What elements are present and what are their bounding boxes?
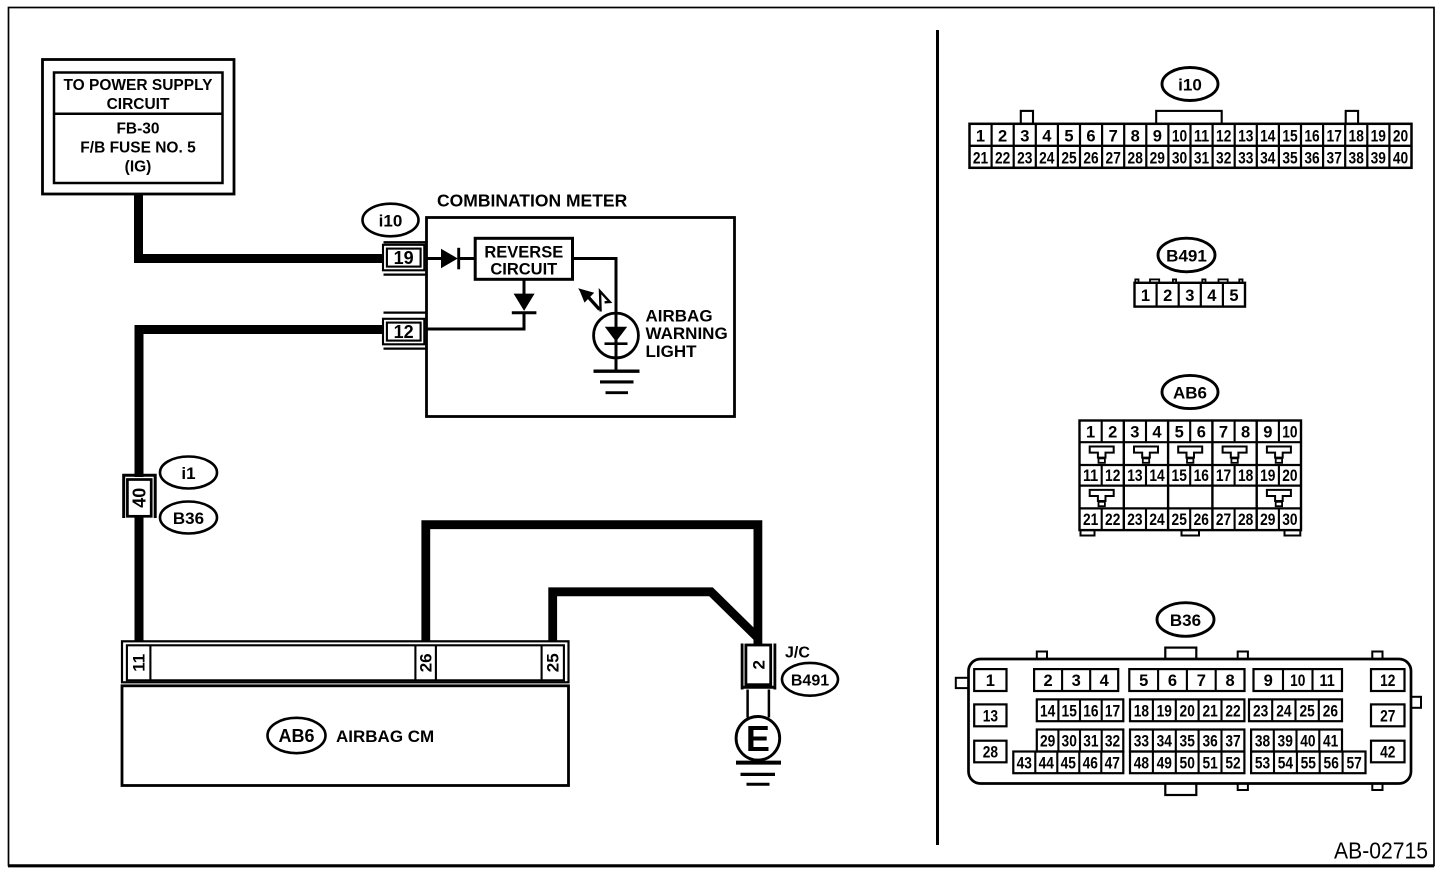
airbag CM connector strip (pins 11, 26, 25) xyxy=(122,641,569,682)
svg-text:16: 16 xyxy=(1083,703,1098,721)
svg-text:31: 31 xyxy=(1194,149,1209,167)
diode (series, anode left) xyxy=(441,248,459,269)
svg-text:8: 8 xyxy=(1226,672,1235,690)
i10 pin numbers 1-40 xyxy=(973,127,1408,167)
svg-text:21: 21 xyxy=(1083,511,1098,529)
wire airbag CM pin 25 up, right, diagonal to J/C wire xyxy=(553,592,758,642)
B36 pins 5-8 xyxy=(1129,669,1244,691)
svg-text:2: 2 xyxy=(1163,287,1172,305)
svg-text:20: 20 xyxy=(1180,703,1195,721)
svg-text:14: 14 xyxy=(1149,467,1165,485)
svg-text:1: 1 xyxy=(976,127,985,145)
svg-text:AB-02715: AB-02715 xyxy=(1334,838,1428,864)
svg-text:18: 18 xyxy=(1238,467,1253,485)
svg-text:B36: B36 xyxy=(173,509,204,528)
i10 connector body grid xyxy=(970,124,1412,168)
B36 pins 1 xyxy=(974,669,1006,691)
power supply source box FB-30 F/B FUSE NO. 5 (IG) xyxy=(43,60,235,195)
svg-text:AB6: AB6 xyxy=(1173,384,1207,403)
svg-text:7: 7 xyxy=(1219,424,1228,442)
AB6 connector body grid xyxy=(1080,421,1302,531)
B36 pins 48-52 xyxy=(1130,752,1244,774)
svg-text:47: 47 xyxy=(1105,755,1120,773)
svg-text:40: 40 xyxy=(1300,733,1315,751)
connector i10 pinout label xyxy=(1162,68,1218,101)
svg-text:10: 10 xyxy=(1172,127,1187,145)
svg-text:38: 38 xyxy=(1255,733,1270,751)
connector label i10 (schematic) xyxy=(363,204,419,237)
svg-text:42: 42 xyxy=(1380,744,1395,762)
svg-text:16: 16 xyxy=(1304,127,1319,145)
svg-text:25: 25 xyxy=(1299,703,1314,721)
svg-text:1: 1 xyxy=(986,672,995,690)
svg-text:19: 19 xyxy=(1371,127,1386,145)
svg-text:5: 5 xyxy=(1139,672,1148,690)
svg-text:11: 11 xyxy=(1083,467,1098,485)
svg-text:49: 49 xyxy=(1157,755,1172,773)
junction connector J/C pin 2 (B491) xyxy=(742,644,775,690)
svg-text:20: 20 xyxy=(1282,467,1297,485)
svg-text:2: 2 xyxy=(1044,672,1053,690)
svg-text:51: 51 xyxy=(1202,755,1217,773)
svg-text:48: 48 xyxy=(1134,755,1149,773)
svg-text:36: 36 xyxy=(1304,149,1319,167)
ground symbol (body earth) xyxy=(736,763,781,785)
svg-text:E: E xyxy=(746,718,770,759)
svg-text:28: 28 xyxy=(1238,511,1253,529)
wire reverse circuit output to airbag warning light xyxy=(573,259,617,371)
svg-text:7: 7 xyxy=(1109,127,1118,145)
svg-text:B491: B491 xyxy=(791,673,829,690)
svg-text:27: 27 xyxy=(1380,708,1395,726)
svg-text:14: 14 xyxy=(1260,127,1276,145)
svg-text:11: 11 xyxy=(1194,127,1209,145)
svg-text:24: 24 xyxy=(1039,149,1055,167)
B36 pins 13 xyxy=(974,704,1006,726)
svg-text:22: 22 xyxy=(995,149,1010,167)
wire pin 12 to diode junction xyxy=(427,328,526,331)
svg-text:23: 23 xyxy=(1127,511,1142,529)
B36 pins 12 xyxy=(1371,669,1405,691)
connector pin 12 (combination meter, i10) xyxy=(383,313,427,349)
svg-text:9: 9 xyxy=(1153,127,1162,145)
wire diode to reverse circuit box xyxy=(459,257,475,260)
AB6 mounting feet xyxy=(1081,530,1301,535)
svg-text:19: 19 xyxy=(1260,467,1275,485)
svg-text:2: 2 xyxy=(1108,424,1117,442)
AIRBAG WARNING LIGHT label xyxy=(646,306,728,361)
B36 pins 33-37 xyxy=(1130,730,1244,752)
svg-text:55: 55 xyxy=(1301,755,1316,773)
svg-text:12: 12 xyxy=(1380,672,1395,690)
svg-text:28: 28 xyxy=(1128,149,1143,167)
svg-text:3: 3 xyxy=(1130,424,1139,442)
B36 pins 43-47 xyxy=(1013,752,1123,774)
svg-text:56: 56 xyxy=(1324,755,1339,773)
svg-text:22: 22 xyxy=(1225,703,1240,721)
svg-text:F/B FUSE NO. 5: F/B FUSE NO. 5 xyxy=(80,140,196,157)
svg-text:8: 8 xyxy=(1241,424,1250,442)
B36 pins 38-41 xyxy=(1251,730,1342,752)
svg-text:57: 57 xyxy=(1346,755,1361,773)
connector label B491 (schematic) xyxy=(782,663,838,696)
svg-text:23: 23 xyxy=(1017,149,1032,167)
svg-text:6: 6 xyxy=(1086,127,1095,145)
svg-text:26: 26 xyxy=(1194,511,1209,529)
svg-text:26: 26 xyxy=(1323,703,1338,721)
svg-text:33: 33 xyxy=(1238,149,1253,167)
shunt diode (cathode bar below) xyxy=(512,294,537,313)
svg-text:32: 32 xyxy=(1105,733,1120,751)
svg-text:4: 4 xyxy=(1152,424,1162,442)
ground terminal E xyxy=(736,717,780,761)
svg-text:7: 7 xyxy=(1197,672,1206,690)
svg-text:34: 34 xyxy=(1157,733,1173,751)
svg-text:29: 29 xyxy=(1150,149,1165,167)
B36 pins 29-32 xyxy=(1037,730,1124,752)
airbag control module box xyxy=(122,686,569,786)
svg-text:35: 35 xyxy=(1282,149,1297,167)
connector AB6 pinout label xyxy=(1162,375,1218,408)
svg-text:8: 8 xyxy=(1131,127,1140,145)
connector label i1 xyxy=(160,457,217,489)
B36 pins 53-57 xyxy=(1251,752,1365,774)
svg-text:4: 4 xyxy=(1207,287,1217,305)
B36 pins 42 xyxy=(1371,741,1405,763)
svg-text:26: 26 xyxy=(417,653,436,672)
svg-text:19: 19 xyxy=(394,248,414,268)
AB6 housing keys row 1 xyxy=(1090,447,1291,463)
svg-text:12: 12 xyxy=(1105,467,1120,485)
B36 pins 9-11 xyxy=(1254,669,1343,691)
svg-text:6: 6 xyxy=(1168,672,1177,690)
wire reverse circuit to shunt diode xyxy=(523,279,526,294)
svg-text:LIGHT: LIGHT xyxy=(646,342,698,361)
svg-text:B491: B491 xyxy=(1166,247,1207,266)
svg-text:41: 41 xyxy=(1323,733,1338,751)
svg-text:16: 16 xyxy=(1194,467,1209,485)
i10 housing keys xyxy=(1021,111,1358,125)
wire airbag CM pin 26 up, right and down to J/C pin 2 xyxy=(426,525,758,644)
svg-text:9: 9 xyxy=(1264,672,1273,690)
svg-text:30: 30 xyxy=(1282,511,1297,529)
wire from fuse FB-30 down and right to combination meter pin 19 xyxy=(139,194,384,259)
svg-text:3: 3 xyxy=(1020,127,1029,145)
svg-text:AIRBAG CM: AIRBAG CM xyxy=(336,727,434,746)
in-line connector pin 40 (i1 / B36) xyxy=(124,475,156,518)
svg-text:2: 2 xyxy=(749,660,768,669)
svg-text:5: 5 xyxy=(1175,424,1184,442)
svg-text:J/C: J/C xyxy=(785,645,810,662)
svg-text:B36: B36 xyxy=(1170,611,1201,630)
B491 connector body grid xyxy=(1135,283,1246,307)
svg-text:40: 40 xyxy=(129,488,149,508)
svg-text:24: 24 xyxy=(1276,703,1292,721)
svg-text:37: 37 xyxy=(1327,149,1342,167)
connector pin 19 (combination meter, i10) xyxy=(383,242,427,274)
wire from in-line connector 40 down to airbag CM pin 11 xyxy=(135,516,144,643)
B36 connector body xyxy=(969,659,1412,784)
svg-text:COMBINATION METER: COMBINATION METER xyxy=(437,191,628,211)
svg-text:44: 44 xyxy=(1039,755,1055,773)
B36 housing keys xyxy=(956,648,1421,795)
svg-text:17: 17 xyxy=(1216,467,1231,485)
ground lead neck xyxy=(748,690,769,718)
svg-text:AB6: AB6 xyxy=(278,726,314,746)
svg-text:19: 19 xyxy=(1157,703,1172,721)
svg-text:5: 5 xyxy=(1064,127,1073,145)
svg-text:28: 28 xyxy=(983,744,998,762)
connector label AB6 (schematic) xyxy=(268,718,326,753)
svg-text:37: 37 xyxy=(1225,733,1240,751)
divider line between schematic and connector views xyxy=(936,30,939,845)
svg-text:1: 1 xyxy=(1086,424,1095,442)
B36 pins 28 xyxy=(974,741,1006,763)
svg-text:15: 15 xyxy=(1172,467,1187,485)
svg-text:31: 31 xyxy=(1083,733,1098,751)
svg-text:46: 46 xyxy=(1083,755,1098,773)
svg-text:53: 53 xyxy=(1255,755,1270,773)
svg-text:39: 39 xyxy=(1371,149,1386,167)
wire from pin 12 left and down to in-line connector 40 xyxy=(139,330,384,478)
svg-text:3: 3 xyxy=(1185,287,1194,305)
svg-text:12: 12 xyxy=(1216,127,1231,145)
svg-text:2: 2 xyxy=(998,127,1007,145)
svg-text:38: 38 xyxy=(1349,149,1364,167)
svg-text:11: 11 xyxy=(130,654,149,672)
svg-text:23: 23 xyxy=(1253,703,1268,721)
svg-text:50: 50 xyxy=(1180,755,1195,773)
svg-text:15: 15 xyxy=(1282,127,1297,145)
svg-text:35: 35 xyxy=(1180,733,1195,751)
B36 pins 18-22 xyxy=(1130,699,1244,721)
svg-text:33: 33 xyxy=(1134,733,1149,751)
svg-text:25: 25 xyxy=(1172,511,1187,529)
svg-text:21: 21 xyxy=(1202,703,1217,721)
svg-text:18: 18 xyxy=(1134,703,1149,721)
combination meter box xyxy=(427,218,735,417)
AB6 housing keys row 2 xyxy=(1090,490,1291,506)
svg-text:i10: i10 xyxy=(379,212,403,231)
svg-text:15: 15 xyxy=(1062,703,1077,721)
wire shunt diode to pin 12 line xyxy=(523,314,526,331)
svg-text:4: 4 xyxy=(1042,127,1052,145)
B491 housing keys xyxy=(1135,279,1242,282)
svg-text:10: 10 xyxy=(1290,672,1305,690)
svg-text:32: 32 xyxy=(1216,149,1231,167)
svg-text:27: 27 xyxy=(1106,149,1121,167)
svg-text:3: 3 xyxy=(1072,672,1081,690)
svg-text:AIRBAG: AIRBAG xyxy=(646,306,713,325)
svg-text:5: 5 xyxy=(1229,287,1238,305)
svg-text:30: 30 xyxy=(1172,149,1187,167)
svg-text:43: 43 xyxy=(1017,755,1032,773)
svg-text:25: 25 xyxy=(543,653,562,672)
connector B491 pinout label xyxy=(1158,238,1215,272)
svg-text:10: 10 xyxy=(1282,424,1297,442)
svg-text:40: 40 xyxy=(1393,149,1408,167)
svg-text:26: 26 xyxy=(1083,149,1098,167)
svg-text:i1: i1 xyxy=(181,464,195,483)
reverse circuit block xyxy=(475,238,572,279)
wire pin19 to diode xyxy=(427,257,443,260)
B36 pins 14-17 xyxy=(1037,699,1124,721)
svg-text:17: 17 xyxy=(1327,127,1342,145)
svg-text:11: 11 xyxy=(1320,672,1335,690)
svg-text:18: 18 xyxy=(1349,127,1364,145)
svg-text:(IG): (IG) xyxy=(125,159,152,176)
svg-text:13: 13 xyxy=(1238,127,1253,145)
svg-text:21: 21 xyxy=(973,149,988,167)
svg-text:6: 6 xyxy=(1197,424,1206,442)
svg-text:54: 54 xyxy=(1278,755,1294,773)
svg-text:34: 34 xyxy=(1260,149,1276,167)
svg-text:13: 13 xyxy=(1127,467,1142,485)
svg-text:20: 20 xyxy=(1393,127,1408,145)
B36 pins 2-4 xyxy=(1034,669,1118,691)
svg-text:22: 22 xyxy=(1105,511,1120,529)
light emission arrows xyxy=(578,288,610,311)
svg-text:39: 39 xyxy=(1278,733,1293,751)
B36 pins 27 xyxy=(1371,704,1405,726)
svg-text:CIRCUIT: CIRCUIT xyxy=(107,96,170,113)
B36 pins 23-26 xyxy=(1249,699,1342,721)
ground (combination meter, below warning light) xyxy=(594,371,640,393)
svg-text:REVERSE: REVERSE xyxy=(484,244,563,262)
svg-text:36: 36 xyxy=(1202,733,1217,751)
svg-text:25: 25 xyxy=(1061,149,1076,167)
svg-text:24: 24 xyxy=(1149,511,1165,529)
svg-text:29: 29 xyxy=(1260,511,1275,529)
svg-text:CIRCUIT: CIRCUIT xyxy=(490,260,557,278)
svg-text:17: 17 xyxy=(1105,703,1120,721)
svg-text:FB-30: FB-30 xyxy=(116,121,159,138)
svg-text:i10: i10 xyxy=(1178,76,1202,95)
connector B36 pinout label xyxy=(1157,603,1214,637)
airbag warning light LED (circle with diode) xyxy=(594,313,639,358)
svg-text:27: 27 xyxy=(1216,511,1231,529)
svg-text:WARNING: WARNING xyxy=(646,324,728,343)
svg-text:12: 12 xyxy=(394,322,414,342)
AB6 pin numbers 1-30 xyxy=(1083,424,1298,530)
svg-text:13: 13 xyxy=(983,708,998,726)
svg-text:4: 4 xyxy=(1100,672,1110,690)
svg-text:30: 30 xyxy=(1062,733,1077,751)
svg-text:9: 9 xyxy=(1263,424,1272,442)
connector label B36 (schematic) xyxy=(160,502,217,534)
svg-text:TO POWER SUPPLY: TO POWER SUPPLY xyxy=(63,77,213,94)
svg-text:14: 14 xyxy=(1040,703,1056,721)
svg-text:52: 52 xyxy=(1225,755,1240,773)
B491 pin numbers 1-5 xyxy=(1141,287,1239,305)
svg-text:1: 1 xyxy=(1141,287,1150,305)
svg-text:29: 29 xyxy=(1040,733,1055,751)
svg-text:45: 45 xyxy=(1061,755,1076,773)
